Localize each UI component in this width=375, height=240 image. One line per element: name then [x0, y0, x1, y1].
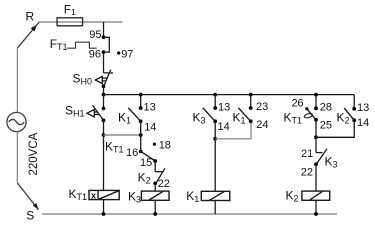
- wire: [315, 164, 317, 191]
- svg-text:22: 22: [301, 167, 313, 179]
- node: [153, 212, 157, 216]
- wire: [154, 183, 156, 191]
- AC source: [7, 112, 26, 131]
- contact K2 21-22 (NC): [155, 168, 165, 183]
- svg-text:21: 21: [301, 148, 313, 160]
- wire: [103, 95, 105, 109]
- node rail K3 column: [213, 93, 217, 97]
- contact K1 13-14 (NO): [139, 106, 143, 110]
- node: [102, 212, 106, 216]
- svg-text:22: 22: [158, 178, 170, 190]
- wire: [214, 95, 216, 108]
- pushbutton SH0 (NC stop): [95, 70, 113, 87]
- node rail KT1 column: [314, 93, 318, 97]
- svg-text:S: S: [26, 208, 34, 222]
- wire: [154, 200, 156, 214]
- wire feed drop: [103, 22, 105, 37]
- wire: [315, 200, 317, 214]
- svg-text:14: 14: [357, 117, 369, 129]
- svg-text:13: 13: [144, 102, 156, 114]
- wire down to K1 coil: [214, 139, 216, 192]
- svg-text:13: 13: [218, 102, 230, 114]
- node: [314, 135, 318, 139]
- timed contact KT1 26-25-28: [314, 107, 318, 111]
- svg-text:13: 13: [357, 102, 369, 114]
- control rail: [104, 94, 355, 96]
- wire branch: [316, 120, 354, 137]
- wire top rail: [39, 21, 122, 23]
- node: [314, 212, 318, 216]
- wire: [103, 120, 105, 190]
- node: [102, 133, 106, 137]
- svg-text:97: 97: [121, 49, 133, 61]
- node 97: [117, 51, 120, 54]
- wire rail corner down: [353, 95, 355, 108]
- timer coil KT1: [89, 190, 119, 199]
- wire left power vertical (lower): [16, 132, 18, 183]
- thermal contact FT1 95-96: [104, 37, 110, 52]
- node rail K1 column 2: [249, 93, 253, 97]
- wire: [103, 52, 105, 73]
- pushbutton SH1 (NO start): [87, 105, 104, 120]
- wire: [140, 95, 142, 108]
- svg-text:18: 18: [159, 140, 171, 152]
- svg-text:95: 95: [89, 29, 101, 41]
- svg-text:24: 24: [256, 119, 268, 131]
- wire branch: [215, 121, 251, 139]
- svg-text:16: 16: [126, 147, 138, 159]
- wire: [154, 161, 156, 172]
- contact K3 13-14 (NO): [213, 106, 217, 110]
- coil K1: [201, 191, 230, 200]
- svg-text:25: 25: [320, 119, 332, 131]
- timed contact KT1 16-15-18: [139, 150, 143, 154]
- svg-text:23: 23: [256, 101, 268, 113]
- wire: [315, 137, 317, 152]
- svg-text:220VCA: 220VCA: [28, 132, 40, 175]
- wire left power vertical (upper): [16, 48, 18, 112]
- node control rail junction: [102, 93, 106, 97]
- coil K3: [141, 191, 169, 200]
- coil K2: [302, 191, 330, 200]
- wire: [214, 121, 216, 139]
- disconnect switch blade R: [17, 22, 39, 48]
- node rail K1 column: [139, 93, 143, 97]
- wire: [214, 201, 216, 215]
- node: [139, 133, 143, 137]
- svg-text:14: 14: [218, 121, 230, 133]
- node 96: [102, 50, 106, 54]
- node: [213, 137, 217, 141]
- wire: [140, 121, 142, 151]
- wire: [103, 86, 105, 94]
- fuse F1: [57, 18, 83, 26]
- wire: [315, 95, 317, 109]
- wire branch: [104, 134, 141, 136]
- contact K2 13-14 (NO): [352, 107, 356, 111]
- svg-text:15: 15: [140, 157, 152, 169]
- wire: [103, 200, 105, 214]
- wire bottom rail: [42, 213, 337, 215]
- svg-text:x: x: [91, 190, 96, 200]
- svg-text:14: 14: [144, 121, 156, 133]
- svg-text:R: R: [26, 10, 35, 24]
- svg-text:26: 26: [291, 97, 303, 109]
- svg-text:28: 28: [320, 102, 332, 114]
- contact K1 23-24 (NO): [249, 106, 253, 110]
- node 95: [102, 35, 106, 39]
- svg-text:96: 96: [89, 49, 101, 61]
- wire: [250, 95, 252, 108]
- wire: [315, 120, 317, 138]
- disconnect switch blade S: [17, 183, 38, 210]
- contact K3 21-22 (NC): [316, 149, 327, 165]
